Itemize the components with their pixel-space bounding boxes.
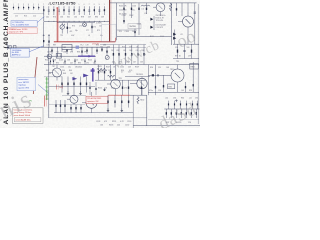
wire (VCO line): [57, 22, 95, 24]
svg-text:L20: L20: [165, 98, 168, 100]
label block (bias values): [156, 15, 166, 29]
component C171: [158, 74, 159, 76]
capacitor (LPF 5): [186, 109, 187, 118]
capacitor (LPF 7): [196, 109, 197, 118]
svg-text:C106: C106: [132, 6, 136, 8]
svg-text:C61: C61: [46, 17, 49, 19]
svg-text:10.695: 10.695: [47, 51, 52, 53]
svg-text:10u: 10u: [132, 10, 135, 12]
svg-text:683: 683: [100, 70, 103, 72]
label row (lower 1b): [46, 70, 133, 72]
label row (under osc 2): [48, 63, 96, 65]
svg-text:0.022: 0.022: [59, 60, 63, 62]
svg-text:R96: R96: [78, 63, 81, 65]
resistor (bus drop 87): [86, 47, 87, 54]
label row (lower): [60, 67, 139, 69]
ground: [79, 93, 82, 95]
ground: [103, 90, 106, 92]
svg-text:R80: R80: [95, 17, 98, 19]
svg-text:TR10: TR10: [170, 69, 174, 71]
svg-text:C92: C92: [63, 63, 66, 65]
resistor (bus drop 52): [51, 47, 52, 54]
svg-text:470u: 470u: [149, 90, 153, 92]
highlight trace (red, left-bottom): [45, 96, 47, 107]
filter FL1 (blue block): [76, 46, 79, 49]
svg-text:R91: R91: [96, 45, 99, 47]
wire (IC bus): [44, 20, 110, 22]
svg-text:R149: R149: [135, 67, 139, 69]
capacitor (LPF 3): [176, 109, 177, 118]
capacitor C71: [67, 23, 71, 34]
label box (IF can): [102, 25, 117, 42]
wire (left spine): [48, 47, 50, 118]
wire (callout leader): [37, 17, 44, 23]
svg-text:TR9: TR9: [119, 78, 122, 80]
node row (pin joints): [48, 20, 104, 23]
component C151: [61, 77, 62, 93]
svg-text:C108: C108: [125, 31, 129, 33]
inductor (LPF top 2): [174, 101, 175, 109]
svg-text:L10: L10: [144, 13, 147, 15]
label row (bottom margin): [96, 121, 131, 123]
transistor Q5: [49, 65, 62, 81]
signal trace (purple): [78, 55, 95, 58]
svg-text:AM/FM tor: AM/FM tor: [12, 54, 21, 57]
wire: [54, 112, 133, 114]
highlight trace (maroon) vertical: [110, 0, 111, 41]
svg-text:220: 220: [117, 124, 120, 126]
highlight trace (red, bottom): [108, 94, 130, 96]
svg-text:5: 5: [79, 4, 80, 6]
resistor (bus drop 102): [101, 47, 102, 52]
svg-text:R90: R90: [150, 67, 153, 69]
trimmer VR1: [47, 54, 52, 59]
capacitor C19 (pin 19 filter): [104, 4, 105, 15]
component R102: [129, 3, 133, 18]
svg-text:473: 473: [124, 88, 127, 90]
node A: [43, 22, 45, 47]
wire (stub): [50, 59, 51, 65]
capacitor C17 (pin 17 filter): [94, 4, 95, 15]
resistor (bus drop 82): [81, 47, 82, 56]
svg-text:470: 470: [70, 31, 73, 33]
capacitor C11 (pin 11 filter): [63, 4, 64, 15]
callout box (blue) AF note: [17, 78, 36, 91]
component L10: [144, 3, 147, 15]
resistor R143 (zigzag): [97, 66, 107, 71]
svg-text:R131: R131: [112, 121, 116, 123]
wire (stub): [94, 59, 95, 65]
capacitor C13 (pin 13 filter): [73, 4, 74, 15]
svg-text:103: 103: [140, 62, 143, 64]
svg-text:2SC1815: 2SC1815: [136, 74, 143, 76]
svg-text:R97 1K: R97 1K: [175, 55, 182, 57]
svg-text:R87: R87: [53, 45, 56, 47]
wire: [125, 76, 150, 78]
capacitor C15 (pin 15 filter): [84, 4, 85, 15]
label (mixer row): [119, 14, 127, 16]
label row (osc): [47, 51, 87, 53]
IC X2 (box): [62, 45, 72, 50]
wire: [49, 117, 147, 119]
component C101: [122, 3, 126, 18]
label (right col 3): [176, 61, 179, 63]
wire: [117, 36, 172, 38]
wire (panel bottom): [133, 125, 200, 127]
svg-text:C130: C130: [127, 121, 131, 123]
svg-text:TP2: TP2: [84, 51, 87, 53]
svg-text:C83: C83: [103, 45, 106, 47]
trimmer CT1: [60, 23, 65, 34]
component R175: [193, 62, 194, 92]
svg-text:5: 5: [33, 4, 34, 6]
svg-text:R133: R133: [109, 124, 113, 126]
svg-text:C91: C91: [158, 67, 161, 69]
svg-text:473: 473: [129, 46, 132, 48]
transistor Q8b: [67, 93, 78, 105]
connector J2: [13, 45, 16, 48]
svg-text:10u: 10u: [68, 67, 71, 69]
info box (service note): [13, 108, 44, 124]
svg-text:serwis ALAN 100+: serwis ALAN 100+: [15, 119, 31, 122]
transistor Q6: [107, 65, 122, 95]
svg-text:C90: C90: [173, 98, 176, 100]
wire (osc bus): [44, 55, 96, 57]
component C203: [176, 3, 177, 16]
wire (left edge of block): [147, 65, 149, 96]
capacitor C9 (pin 9 filter): [53, 4, 54, 15]
svg-text:C77: C77: [86, 30, 89, 32]
label box (emitter): [168, 84, 175, 89]
svg-text:R13: R13: [24, 15, 27, 17]
inductor L11 (coil): [141, 5, 150, 10]
wire (top bus): [110, 2, 197, 4]
inductor (LPF top 1): [168, 101, 169, 109]
svg-text:PLL 10.240MHz ROM: PLL 10.240MHz ROM: [12, 24, 29, 26]
label row (mid-lower specks): [100, 72, 131, 74]
transistor Q6b: [130, 74, 147, 95]
ground: [67, 93, 70, 95]
svg-text:C76: C76: [47, 45, 50, 47]
label row (loop specks): [72, 25, 102, 27]
watermark (decorative): [0, 25, 200, 133]
svg-text:wzmacniacz: wzmacniacz: [18, 79, 28, 81]
wire (stub): [64, 59, 65, 65]
component (audio): [64, 100, 65, 113]
svg-text:C41: C41: [111, 50, 114, 52]
component (audio out): [70, 105, 71, 113]
label row (tr corner): [150, 34, 183, 38]
component R181: [114, 95, 115, 107]
trimmer VR2: [105, 56, 109, 60]
svg-text:C57: C57: [128, 72, 131, 74]
capacitor C14 (pin 14 filter): [78, 4, 80, 15]
wire (main bus right): [110, 46, 146, 48]
svg-text:R121: R121: [45, 60, 49, 62]
capacitor C3 (pin 3 filter): [23, 4, 24, 10]
wire: [43, 6, 45, 21]
svg-text:102: 102: [70, 73, 73, 75]
label box (mixer): [128, 24, 141, 29]
label row (right-lower): [149, 90, 192, 92]
wire (bus drop): [91, 47, 93, 56]
svg-text:R147: R147: [106, 67, 110, 69]
svg-text:C88: C88: [63, 51, 66, 53]
capacitor (LPF 6): [191, 109, 192, 118]
component C172: [155, 65, 156, 96]
svg-text:C65: C65: [74, 17, 77, 19]
svg-text:C132: C132: [125, 124, 129, 126]
svg-text:C96: C96: [158, 90, 161, 92]
wire: [95, 79, 146, 81]
svg-text:473: 473: [70, 51, 73, 53]
label (right col): [175, 47, 189, 49]
svg-text:C75: C75: [79, 25, 82, 27]
label row (bottom margin 2): [100, 124, 129, 126]
highlight trace (maroon diagonal): [33, 57, 37, 94]
label row (above bus): [47, 45, 107, 47]
component R151: [67, 77, 68, 93]
svg-text:C94: C94: [188, 122, 191, 124]
capacitor (LPF 2): [171, 109, 172, 118]
component (audio): [60, 100, 61, 113]
capacitor C8 (pin 8 filter): [48, 4, 50, 15]
wire (sub bus): [100, 44, 146, 46]
svg-text:R94: R94: [56, 63, 59, 65]
capacitor C1 (pin 1 filter): [13, 4, 14, 10]
svg-text:102: 102: [68, 27, 71, 29]
component (audio out 3): [80, 105, 81, 113]
transistor Q201: [178, 3, 194, 44]
svg-text:R93: R93: [77, 51, 80, 53]
component (det 1): [89, 82, 90, 95]
svg-text:4.7u: 4.7u: [81, 60, 84, 62]
ground: [107, 110, 110, 112]
inductor (LPF top 3): [180, 101, 181, 109]
diode D201: [173, 33, 176, 36]
svg-text:C69: C69: [101, 17, 104, 19]
resistor R203: [191, 44, 192, 58]
capacitor C2 (pin 2 filter): [18, 4, 19, 10]
svg-text:R40: R40: [122, 46, 125, 48]
svg-text:X3 21.855: X3 21.855: [119, 14, 127, 16]
wire (right edge): [197, 4, 199, 124]
svg-text:R76: R76: [72, 25, 75, 27]
diode D202: [173, 37, 176, 40]
component R183: [128, 95, 129, 107]
transistor Q7: [170, 65, 184, 93]
svg-text:R32: R32: [46, 70, 49, 72]
svg-text:TR ukf 2SC2999: TR ukf 2SC2999: [87, 98, 101, 100]
wire (center bus): [44, 64, 199, 66]
wire (stub): [74, 59, 75, 65]
wire: [153, 16, 155, 30]
resistor R201 (zigzag): [169, 3, 171, 11]
component C153: [73, 77, 74, 93]
wire: [49, 85, 95, 87]
component C43: [123, 45, 126, 65]
svg-text:TP8 0.8V: TP8 0.8V: [156, 20, 164, 22]
wire (panel divider): [146, 95, 148, 126]
label (right col 2): [175, 55, 191, 57]
capacitor C6 (pin 6 filter): [38, 4, 39, 10]
label row (bottom-right): [165, 98, 198, 100]
label row (right-lower 2): [150, 67, 170, 69]
wire: [44, 76, 62, 78]
svg-text:FL2: FL2: [81, 45, 84, 47]
label row (loop specks 3): [60, 35, 103, 37]
svg-text:X01: X01: [67, 17, 70, 19]
highlight marks (pink): [57, 85, 63, 90]
wire: [174, 30, 176, 45]
svg-text:473: 473: [104, 121, 107, 123]
label row (sub bus): [100, 46, 138, 48]
svg-text:103: 103: [181, 90, 184, 92]
svg-text:R42: R42: [117, 50, 120, 52]
svg-text:4.7: 4.7: [121, 72, 123, 74]
svg-text:1: 1: [104, 4, 105, 6]
label row (mid-right): [112, 62, 143, 64]
diode D102: [150, 26, 153, 29]
component C107: [123, 18, 124, 24]
svg-text:R125: R125: [88, 60, 92, 62]
resistor R160 (zigzag): [137, 96, 144, 104]
component C181: [107, 95, 108, 110]
wire (bus drop): [61, 50, 63, 53]
capacitor C4 (pin 4 filter): [28, 4, 29, 10]
label row (lower 1c): [48, 73, 73, 75]
node C: [175, 99, 178, 102]
node B: [48, 34, 50, 47]
capacitor (LPF 4): [181, 109, 182, 118]
svg-text:6: 6: [84, 4, 85, 6]
resistor R148 (zigzag): [108, 75, 116, 77]
svg-text:C63: C63: [60, 17, 63, 19]
wire (callout leader): [29, 46, 43, 52]
svg-text:1k5: 1k5: [59, 87, 62, 89]
capacitor C10 (pin 10 filter): [58, 4, 60, 15]
resistor (bus drop 107): [106, 47, 107, 56]
wire (main bus): [8, 46, 111, 48]
capacitor C18 (pin 18 filter): [98, 4, 100, 15]
component R108: [134, 29, 135, 37]
label row (pin names): [46, 17, 104, 19]
svg-text:R74: R74: [53, 17, 56, 19]
wire: [181, 3, 183, 16]
component C45: [136, 45, 139, 65]
label row (pin area): [15, 15, 36, 17]
component R42: [117, 45, 120, 65]
wire (stub): [53, 59, 54, 65]
svg-text:103: 103: [132, 31, 135, 33]
component C183: [121, 95, 122, 110]
wire: [173, 58, 199, 60]
signal arrow (purple): [83, 74, 88, 78]
component (coupling): [98, 65, 99, 81]
svg-text:102: 102: [100, 46, 103, 48]
diode D101: [150, 18, 153, 21]
svg-text:R78: R78: [81, 17, 84, 19]
capacitor C16 (pin 16 filter): [88, 4, 90, 15]
svg-text:C97: C97: [188, 55, 191, 57]
svg-text:C95: C95: [175, 47, 178, 49]
svg-text:R79: R79: [97, 30, 100, 32]
svg-text:TP9: TP9: [176, 61, 179, 63]
component R46: [142, 45, 145, 65]
connector J1: [8, 44, 12, 50]
component (bias): [141, 80, 142, 95]
resistor (bus drop 97): [96, 47, 97, 54]
svg-text:R150: R150: [98, 88, 102, 90]
svg-text:103: 103: [100, 124, 103, 126]
signal arrow (purple 2): [72, 77, 77, 80]
svg-text:C104: C104: [137, 23, 141, 25]
capacitor C12 (pin 12 filter): [68, 4, 70, 15]
capacitor C201: [194, 3, 196, 44]
highlight trace (red) horizontal: [54, 38, 116, 46]
svg-text:REG: REG: [191, 66, 195, 68]
label row (loop specks 2): [75, 30, 100, 32]
svg-text:R105 47K: R105 47K: [119, 6, 127, 8]
svg-text:C161: C161: [111, 88, 115, 90]
svg-text:L11: L11: [142, 8, 145, 10]
svg-text:C105 103: C105 103: [119, 10, 126, 12]
inductor (LPF top 4): [186, 101, 187, 109]
capacitor C202: [183, 44, 185, 58]
component C104: [137, 3, 141, 35]
capacitor (LPF 1): [166, 109, 167, 118]
highlight trace (red) vertical: [56, 7, 59, 42]
wire (panel divider 2): [132, 95, 134, 128]
component C155: [86, 77, 87, 93]
svg-text:C112 473: C112 473: [156, 27, 164, 29]
capacitor C5 (pin 5 filter): [33, 4, 34, 10]
svg-text:33p: 33p: [75, 30, 78, 32]
resistor (bus drop 67): [66, 50, 67, 55]
inductor (LPF top 6): [197, 101, 198, 109]
wire (pin return): [14, 13, 44, 15]
component (bias): [128, 80, 129, 95]
svg-text:R99: R99: [189, 90, 192, 92]
callout box (blue) IF note: [11, 48, 29, 57]
component (det 2): [95, 82, 96, 95]
svg-text:C12: C12: [15, 15, 18, 17]
svg-text:m.cz TA7222: m.cz TA7222: [18, 81, 29, 84]
label row (lower2): [98, 88, 143, 90]
wire (right bus): [173, 43, 199, 45]
svg-text:C79: C79: [86, 45, 89, 47]
svg-text:X1: X1: [57, 51, 59, 53]
svg-text:C92: C92: [195, 98, 198, 100]
svg-text:TA7358: TA7358: [129, 25, 135, 28]
wire: [130, 94, 147, 96]
svg-text:C128: C128: [96, 121, 100, 123]
wire: [62, 95, 86, 97]
svg-text:L8: L8: [88, 35, 90, 37]
capacitor C73: [91, 23, 96, 33]
svg-text:C14: C14: [33, 15, 36, 17]
wire: [49, 104, 85, 106]
svg-text:R48: R48: [63, 73, 66, 75]
svg-text:C73: C73: [93, 27, 96, 29]
component C174: [185, 82, 186, 92]
svg-text:223: 223: [70, 63, 73, 65]
inductor (LPF top 5): [192, 101, 193, 109]
svg-text:2SC1815: 2SC1815: [75, 67, 82, 69]
callout box (red) note: [8, 28, 38, 34]
component R171: [152, 74, 154, 76]
svg-text:R102: R102: [129, 15, 133, 17]
